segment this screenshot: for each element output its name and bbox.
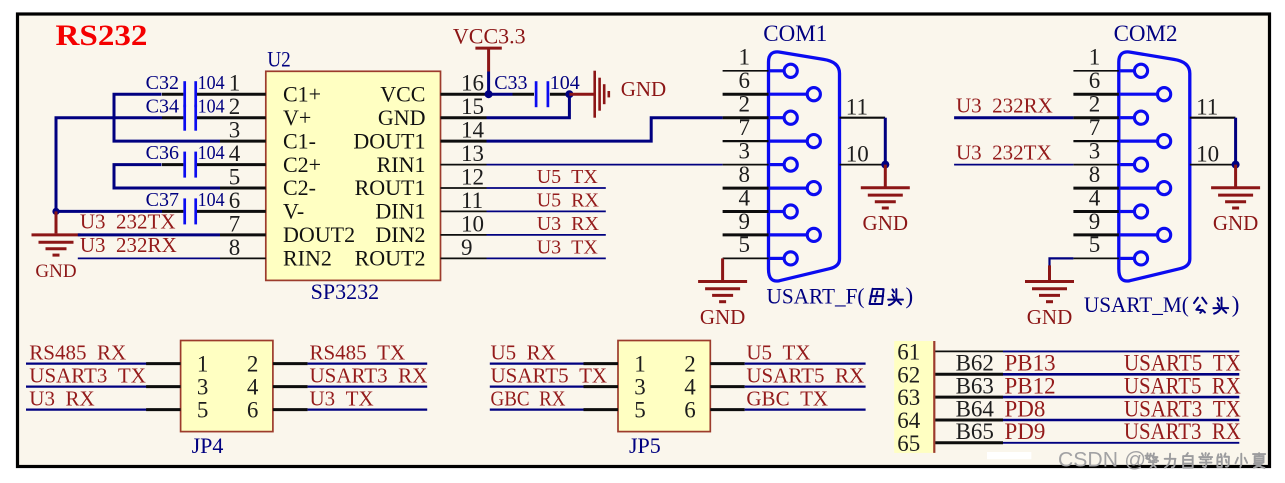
svg-text:@: @ xyxy=(1124,448,1146,472)
wire JP4 left pin 5 xyxy=(26,409,147,411)
wire COM2 pin 10 xyxy=(1190,164,1236,166)
wire 11-10 vertical xyxy=(884,118,887,165)
svg-text:PD9: PD9 xyxy=(1005,419,1046,444)
svg-text:7: 7 xyxy=(739,115,751,140)
svg-text:USART5 TX: USART5 TX xyxy=(1124,351,1241,376)
svg-text:SP3232: SP3232 xyxy=(311,279,379,304)
wire pin 4 stub xyxy=(162,163,183,166)
svg-text:3: 3 xyxy=(229,118,241,143)
svg-text:63: 63 xyxy=(897,385,920,410)
svg-text:USART3 RX: USART3 RX xyxy=(310,363,428,387)
svg-text:62: 62 xyxy=(897,362,920,387)
wire pin 5 stub xyxy=(220,187,266,190)
svg-text:USART_M(: USART_M( xyxy=(1084,292,1189,317)
svg-text:): ) xyxy=(1232,292,1240,317)
pin hole 7 xyxy=(1120,140,1157,143)
wire pin 11 stub xyxy=(441,210,487,212)
wire COM2 pin 9 xyxy=(1073,233,1118,236)
svg-text:14: 14 xyxy=(461,118,485,143)
connector edge strip border xyxy=(933,341,935,453)
wire pin 2 stub xyxy=(162,116,183,119)
svg-text:U3 232TX: U3 232TX xyxy=(80,210,176,234)
svg-text:U5 TX: U5 TX xyxy=(537,166,599,188)
svg-text:RS485 RX: RS485 RX xyxy=(29,340,126,364)
svg-text:GBC TX: GBC TX xyxy=(746,386,828,410)
svg-text:VCC3.3: VCC3.3 xyxy=(453,24,526,49)
capacitor C34 xyxy=(183,105,186,131)
ground GND at COM2 pin10 xyxy=(1234,165,1237,188)
svg-text:6: 6 xyxy=(229,188,241,213)
pin hole 9 xyxy=(770,233,807,236)
svg-text:JP5: JP5 xyxy=(629,433,661,458)
wire JP4 left pin 3 xyxy=(26,386,147,388)
wire COM1 pin 9 xyxy=(723,233,769,236)
svg-text:GND: GND xyxy=(863,211,909,235)
wire COM2 pin 1 xyxy=(1073,70,1118,72)
svg-text:B63: B63 xyxy=(956,373,994,398)
wire strip pin 63 xyxy=(935,396,1003,399)
svg-text:USART5 RX: USART5 RX xyxy=(746,363,864,387)
ground GND at V- xyxy=(55,211,58,233)
svg-text:GND: GND xyxy=(35,261,76,282)
svg-text:GND: GND xyxy=(378,105,426,130)
wire 11-10 vertical xyxy=(1234,118,1237,165)
wire COM2 pin 4 xyxy=(1073,210,1118,213)
pin hole 8 xyxy=(1120,187,1157,190)
svg-text:U3 TX: U3 TX xyxy=(537,237,599,259)
svg-text:10: 10 xyxy=(846,141,869,166)
wire COM1 pin 8 xyxy=(723,187,769,190)
svg-text:2: 2 xyxy=(739,92,751,117)
wire JP5 right pin 4 xyxy=(710,385,744,388)
wire JP4 right pin 6 xyxy=(273,408,308,411)
svg-text:U5 RX: U5 RX xyxy=(537,190,600,212)
svg-text:U3 TX: U3 TX xyxy=(310,386,374,410)
svg-text:PB12: PB12 xyxy=(1005,373,1056,398)
svg-text:5: 5 xyxy=(739,232,751,257)
svg-text:1: 1 xyxy=(1089,45,1101,70)
svg-text:DOUT1: DOUT1 xyxy=(353,128,425,153)
wire COM2 pin 7 xyxy=(1073,140,1118,142)
wire COM1 pin 11 xyxy=(840,117,886,119)
svg-text:C1+: C1+ xyxy=(283,81,321,106)
glyphs mu-tou for USART_F label xyxy=(870,289,884,304)
wire pin 15 stub xyxy=(441,116,487,119)
wire COM1 pin 10 xyxy=(840,164,886,166)
svg-text:U2: U2 xyxy=(267,47,291,72)
svg-text:B65: B65 xyxy=(956,419,994,444)
svg-text:15: 15 xyxy=(461,94,484,119)
pin hole 5 xyxy=(770,257,784,260)
wire net U3__TX xyxy=(487,257,606,259)
jumper JP5 body xyxy=(618,341,710,432)
wire COM1 pin 4 xyxy=(723,210,769,213)
ground GND at COM1 pin5 xyxy=(721,258,724,281)
svg-text:U3 RX: U3 RX xyxy=(29,386,94,410)
wire VCC to C33 xyxy=(487,93,513,96)
wire pin 10 stub xyxy=(441,234,487,236)
wire COM1 pin 2 xyxy=(723,116,769,119)
svg-text:GND: GND xyxy=(1213,211,1259,235)
wire C2+ net xyxy=(114,165,220,188)
svg-text:2: 2 xyxy=(684,351,696,376)
wire GND pin riser xyxy=(487,94,570,118)
wire pin 7 stub xyxy=(220,233,266,236)
wire pin 14 stub xyxy=(441,140,487,143)
svg-text:USART3 TX: USART3 TX xyxy=(1124,396,1241,421)
svg-text:ROUT2: ROUT2 xyxy=(355,246,426,271)
svg-text:U3 232TX: U3 232TX xyxy=(956,140,1052,164)
svg-text:B64: B64 xyxy=(956,396,995,421)
capacitor C32 xyxy=(183,81,186,107)
wire COM2 pin 2 xyxy=(1073,116,1118,119)
wire pin 1 stub xyxy=(162,93,183,96)
pin hole 5 xyxy=(1120,257,1134,260)
svg-text:6: 6 xyxy=(684,397,696,422)
svg-text:U5 TX: U5 TX xyxy=(746,340,810,364)
svg-text:3: 3 xyxy=(634,374,646,399)
svg-text:USART5 TX: USART5 TX xyxy=(491,363,608,387)
wire strip pin 64 xyxy=(935,419,1003,422)
ground GND right-facing xyxy=(569,93,594,96)
wire pin 6 stub xyxy=(162,210,183,213)
svg-text:6: 6 xyxy=(1089,68,1101,93)
svg-text:C1-: C1- xyxy=(283,128,316,153)
svg-text:7: 7 xyxy=(229,211,241,236)
svg-text:2: 2 xyxy=(1089,92,1101,117)
svg-text:C33: C33 xyxy=(494,72,527,94)
svg-text:ROUT1: ROUT1 xyxy=(355,175,426,200)
svg-text:RS485 TX: RS485 TX xyxy=(310,340,406,364)
wire COM1 pin 3 xyxy=(723,164,769,166)
wire pin 8 stub xyxy=(220,257,266,259)
jumper JP4 body xyxy=(181,341,273,432)
svg-text:JP4: JP4 xyxy=(192,433,224,458)
wire COM2 pin5 to GND xyxy=(1050,258,1074,266)
svg-text:10: 10 xyxy=(1196,141,1219,166)
svg-text:USART3 RX: USART3 RX xyxy=(1124,419,1241,444)
svg-text:DIN2: DIN2 xyxy=(375,222,425,247)
svg-text:DIN1: DIN1 xyxy=(375,199,425,224)
svg-text:PD8: PD8 xyxy=(1005,396,1046,421)
wire pin 9 stub xyxy=(441,257,487,259)
svg-text:1: 1 xyxy=(197,351,209,376)
svg-text:5: 5 xyxy=(634,397,646,422)
svg-text:GND: GND xyxy=(621,77,667,101)
svg-text:11: 11 xyxy=(846,94,868,119)
svg-text:V+: V+ xyxy=(283,105,311,130)
connector COM2 D-shell xyxy=(1119,52,1190,281)
svg-text:C34: C34 xyxy=(146,95,179,117)
svg-text:4: 4 xyxy=(684,374,696,399)
wire COM2 pin 5 xyxy=(1073,257,1118,259)
svg-text:10: 10 xyxy=(461,211,484,236)
svg-text:5: 5 xyxy=(229,165,241,190)
wire JP5 right pin 6 xyxy=(710,408,744,411)
svg-text:C37: C37 xyxy=(146,189,179,211)
wire JP4 right pin 4 xyxy=(273,385,308,388)
svg-text:11: 11 xyxy=(1196,94,1218,119)
node V- junction xyxy=(52,208,59,215)
svg-text:4: 4 xyxy=(247,374,259,399)
svg-text:COM2: COM2 xyxy=(1114,21,1178,46)
svg-text:4: 4 xyxy=(1089,185,1101,210)
pin hole 7 xyxy=(770,140,807,143)
svg-text:8: 8 xyxy=(739,162,751,187)
capacitor C36 xyxy=(183,152,186,178)
wire JP4 left pin 1 xyxy=(26,363,147,365)
svg-text:64: 64 xyxy=(897,408,921,433)
wire net U3__RX xyxy=(487,234,606,236)
wire strip pin 62 xyxy=(935,373,1003,376)
wire DOUT1 net to COM1 pin2 xyxy=(487,118,723,141)
capacitor C33 xyxy=(535,81,538,107)
wire C33 to GND node xyxy=(550,93,570,96)
svg-text:RIN1: RIN1 xyxy=(377,152,426,177)
svg-text:GND: GND xyxy=(700,305,746,329)
pin hole 3 xyxy=(1120,163,1134,166)
svg-text:16: 16 xyxy=(461,71,484,96)
wire COM2 pin 11 xyxy=(1190,117,1236,119)
wire pin 13 stub xyxy=(441,164,487,166)
svg-text:USART_F(: USART_F( xyxy=(767,283,865,308)
svg-text:12: 12 xyxy=(461,165,484,190)
node pin10 junction xyxy=(1232,161,1240,169)
svg-text:5: 5 xyxy=(1089,232,1101,257)
node C33/GND junction xyxy=(565,90,573,98)
svg-text:): ) xyxy=(906,283,914,308)
wire RIN1 net to COM1 pin3 xyxy=(487,164,723,166)
svg-text:4: 4 xyxy=(739,185,751,210)
wire COM2 pin 3 xyxy=(1073,164,1118,166)
ground GND at COM1 pin10 xyxy=(884,165,887,188)
svg-text:RIN2: RIN2 xyxy=(283,246,332,271)
wire pin 12 stub xyxy=(441,187,487,189)
pin hole 9 xyxy=(1120,233,1157,236)
svg-text:6: 6 xyxy=(247,397,259,422)
connector edge strip body xyxy=(894,341,933,453)
svg-text:C32: C32 xyxy=(146,72,179,94)
wire RIN2 net xyxy=(78,257,220,259)
svg-text:USART5 RX: USART5 RX xyxy=(1124,373,1241,398)
wire pin 3 stub xyxy=(220,140,266,143)
pin hole 4 xyxy=(770,210,784,213)
pin hole 1 xyxy=(770,69,784,72)
svg-text:3: 3 xyxy=(1089,138,1101,163)
watermark patch xyxy=(987,452,1031,459)
svg-text:9: 9 xyxy=(461,235,473,260)
capacitor C37 xyxy=(183,198,186,224)
svg-text:1: 1 xyxy=(739,45,751,70)
wire COM1 pin 1 xyxy=(723,70,769,72)
svg-text:61: 61 xyxy=(897,339,920,364)
connector COM1 D-shell xyxy=(769,52,840,281)
svg-text:104: 104 xyxy=(198,72,225,94)
svg-text:U5 RX: U5 RX xyxy=(491,340,556,364)
svg-text:5: 5 xyxy=(197,397,209,422)
pin hole 6 xyxy=(770,93,807,96)
wire pin 16 stub xyxy=(441,93,487,96)
svg-text:4: 4 xyxy=(229,141,241,166)
wire DOUT2 net xyxy=(78,233,220,236)
pin hole 6 xyxy=(1120,93,1157,96)
svg-text:C2-: C2- xyxy=(283,175,316,200)
svg-text:2: 2 xyxy=(229,94,241,119)
pin hole 3 xyxy=(770,163,784,166)
svg-text:GND: GND xyxy=(1027,305,1073,329)
svg-text:U3 RX: U3 RX xyxy=(537,213,600,235)
wire U3_232TX net xyxy=(954,164,1073,166)
svg-text:104: 104 xyxy=(198,142,225,164)
wire COM1 pin 6 xyxy=(723,93,769,96)
pin hole 4 xyxy=(1120,210,1134,213)
svg-text:9: 9 xyxy=(739,209,751,234)
pin hole 2 xyxy=(770,116,784,119)
svg-text:13: 13 xyxy=(461,141,484,166)
svg-text:8: 8 xyxy=(229,235,241,260)
svg-text:9: 9 xyxy=(1089,209,1101,234)
svg-text:104: 104 xyxy=(550,72,580,94)
svg-text:B62: B62 xyxy=(956,351,994,376)
wire JP5 left pin 3 xyxy=(490,386,585,388)
wire JP5 left pin 1 xyxy=(490,363,585,365)
pin hole 1 xyxy=(1120,69,1134,72)
svg-text:1: 1 xyxy=(229,71,241,96)
svg-text:1: 1 xyxy=(634,351,646,376)
svg-text:U3 232RX: U3 232RX xyxy=(956,93,1053,117)
svg-text:7: 7 xyxy=(1089,115,1101,140)
svg-text:6: 6 xyxy=(739,68,751,93)
wire strip pin 61 xyxy=(935,350,1003,352)
wire strip pin 65 xyxy=(935,441,1003,444)
chip U2 body xyxy=(266,71,441,280)
svg-text:104: 104 xyxy=(198,189,225,211)
svg-text:RS232: RS232 xyxy=(56,19,148,52)
node VCC junction xyxy=(485,90,493,98)
svg-text:CSDN: CSDN xyxy=(1058,448,1118,472)
pin hole 2 xyxy=(1120,116,1134,119)
wire COM1 pin 7 xyxy=(723,140,769,142)
svg-text:8: 8 xyxy=(1089,162,1101,187)
svg-text:VCC: VCC xyxy=(380,81,425,106)
wire V+ vertical to GND junction xyxy=(56,118,162,212)
glyphs gong-tou for USART_M label xyxy=(1194,298,1206,313)
ground GND at COM2 pin5 xyxy=(1048,265,1051,281)
svg-text:C2+: C2+ xyxy=(283,152,321,177)
wire JP5 right pin 2 xyxy=(710,362,744,365)
wire COM1 pin 5 xyxy=(723,257,769,259)
svg-text:11: 11 xyxy=(461,188,483,213)
wire COM2 pin 6 xyxy=(1073,93,1118,96)
wire net U5__TX xyxy=(487,187,606,189)
wire net U5__RX xyxy=(487,210,606,212)
wire VCC drop xyxy=(487,72,490,95)
svg-text:3: 3 xyxy=(197,374,209,399)
svg-text:C36: C36 xyxy=(146,142,179,164)
svg-text:PB13: PB13 xyxy=(1005,351,1056,376)
pin hole 8 xyxy=(770,187,807,190)
node pin10 junction xyxy=(881,161,889,169)
svg-text:USART3 TX: USART3 TX xyxy=(29,363,146,387)
wire JP4 right pin 2 xyxy=(273,362,308,365)
svg-text:3: 3 xyxy=(739,138,751,163)
svg-text:104: 104 xyxy=(198,95,225,117)
svg-text:2: 2 xyxy=(247,351,259,376)
svg-text:V-: V- xyxy=(283,199,304,224)
svg-text:65: 65 xyxy=(897,431,920,456)
wire U3_232RX net xyxy=(954,116,1073,119)
svg-text:U3 232RX: U3 232RX xyxy=(80,233,177,257)
svg-text:COM1: COM1 xyxy=(763,21,827,46)
wire COM2 pin 8 xyxy=(1073,187,1118,190)
wire C1+ net xyxy=(114,94,220,141)
svg-text:DOUT2: DOUT2 xyxy=(283,222,355,247)
svg-text:GBC RX: GBC RX xyxy=(491,386,566,410)
wire JP5 left pin 5 xyxy=(490,409,585,411)
